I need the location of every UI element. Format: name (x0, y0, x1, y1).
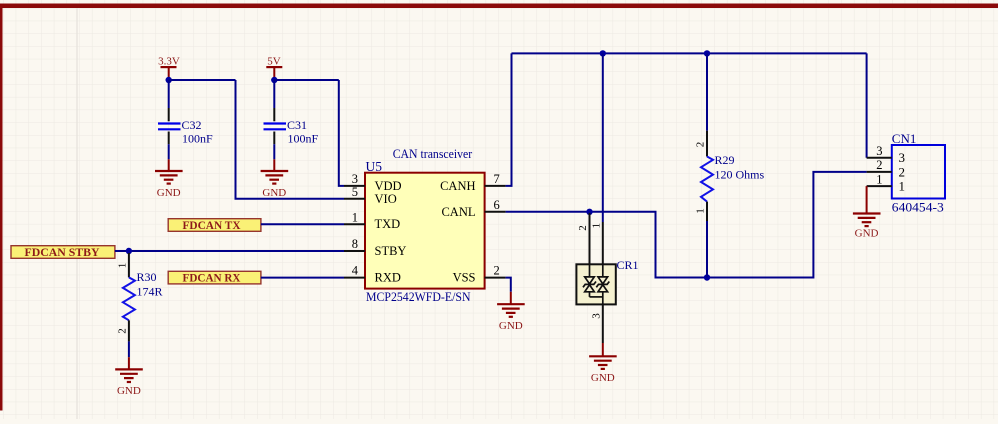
svg-text:2: 2 (494, 264, 500, 278)
wire CANL to CN1 (506, 172, 867, 278)
pin 3 (867, 157, 892, 159)
ground GND under CN1 pin 1 (853, 186, 881, 239)
wire 5V down to VDD (339, 80, 344, 186)
wire 3.3V horizontal (169, 79, 236, 81)
svg-text:2: 2 (695, 142, 707, 148)
svg-text:MCP2542WFD-E/SN: MCP2542WFD-E/SN (366, 289, 471, 304)
pin 7 CANH (440, 172, 506, 193)
pin 4 RXD (344, 264, 401, 285)
svg-text:2: 2 (876, 158, 882, 172)
svg-text:GND: GND (117, 385, 141, 397)
pin 1 TXD (344, 210, 400, 231)
wire bus down to CR1 pin 1 (602, 53, 604, 222)
ground GND under C32 (155, 159, 183, 199)
ground GND under VSS (497, 292, 525, 332)
svg-text:1: 1 (695, 208, 707, 214)
capacitor C32 (158, 108, 213, 146)
svg-text:6: 6 (494, 198, 500, 212)
svg-text:STBY: STBY (375, 244, 407, 258)
op-amp U5 CAN transceiver IC body (365, 146, 485, 304)
svg-text:7: 7 (494, 172, 500, 186)
net label FDCAN RX (168, 271, 261, 284)
wire FDCAN RX to pin 4 (261, 277, 344, 279)
svg-text:R29: R29 (715, 153, 735, 167)
svg-text:2: 2 (577, 225, 589, 231)
ground GND under C31 (261, 159, 289, 199)
ground GND under CR1 (589, 343, 617, 384)
svg-text:VSS: VSS (453, 271, 476, 285)
TVS diode CR1 (576, 213, 638, 343)
junction node 5V (271, 77, 277, 83)
wire 3.3V down to VIO (236, 80, 345, 199)
svg-text:TXD: TXD (375, 217, 401, 231)
svg-text:GND: GND (499, 320, 523, 332)
junction node CANL/R29 (704, 274, 710, 280)
svg-text:3: 3 (899, 150, 906, 165)
svg-text:GND: GND (262, 187, 286, 199)
wire R30 to ground (128, 341, 130, 357)
svg-text:FDCAN STBY: FDCAN STBY (25, 247, 101, 259)
wire bus down to CN1 pin 3 (866, 53, 868, 157)
svg-text:3: 3 (352, 172, 358, 186)
svg-text:100nF: 100nF (288, 132, 319, 146)
svg-text:100nF: 100nF (182, 132, 213, 146)
wire CANH top bus (512, 52, 867, 54)
svg-text:CAN transceiver: CAN transceiver (393, 146, 473, 161)
wire 3.3V to C32 (168, 80, 170, 108)
power port 5V (266, 56, 282, 81)
svg-text:FDCAN RX: FDCAN RX (183, 273, 242, 285)
connector CN1 (867, 131, 945, 215)
resistor R29 (695, 53, 765, 277)
ground GND under R30 (115, 357, 143, 397)
svg-text:GND: GND (591, 372, 615, 384)
junction node CANL/CR1 (586, 209, 592, 215)
pin 1 (867, 185, 892, 187)
svg-text:CN1: CN1 (892, 131, 917, 146)
svg-text:4: 4 (352, 264, 359, 278)
svg-text:1: 1 (590, 223, 602, 229)
svg-text:1: 1 (899, 179, 906, 194)
wire 5V horizontal (274, 79, 339, 81)
svg-text:8: 8 (352, 237, 358, 251)
junction node CR1 top (600, 50, 606, 56)
svg-text:1: 1 (352, 210, 358, 224)
svg-text:120 Ohms: 120 Ohms (715, 168, 765, 182)
svg-text:GND: GND (855, 228, 879, 240)
junction node R29 top (704, 50, 710, 56)
capacitor C31 (264, 108, 319, 146)
svg-text:RXD: RXD (375, 271, 401, 285)
svg-text:CR1: CR1 (617, 258, 639, 272)
svg-text:3: 3 (876, 144, 882, 158)
svg-text:C31: C31 (287, 118, 307, 132)
svg-text:1: 1 (876, 172, 882, 186)
wire C32 to ground (168, 144, 170, 159)
wire VSS to ground (506, 278, 511, 292)
svg-text:1: 1 (116, 263, 128, 269)
wire 5V to C31 (273, 80, 275, 108)
pin 8 STBY (344, 237, 406, 258)
svg-text:3.3V: 3.3V (158, 56, 180, 68)
left TVS diode element (583, 264, 596, 297)
svg-text:5V: 5V (267, 56, 281, 68)
svg-text:FDCAN TX: FDCAN TX (183, 220, 242, 232)
junction node 3.3V (166, 77, 172, 83)
net label FDCAN TX (168, 219, 261, 232)
pin 3 VDD (344, 172, 402, 193)
wire C31 to ground (273, 144, 275, 159)
svg-text:174R: 174R (137, 285, 163, 299)
pin 5 VIO (344, 185, 397, 206)
svg-text:640454-3: 640454-3 (892, 201, 944, 215)
major grid line (76, 8, 78, 419)
internal joining wire (590, 296, 603, 298)
svg-text:3: 3 (590, 313, 602, 319)
wire FDCAN TX to pin 1 (261, 223, 344, 225)
svg-text:GND: GND (157, 187, 181, 199)
svg-text:R30: R30 (137, 270, 157, 284)
svg-text:VIO: VIO (375, 192, 397, 206)
svg-text:5: 5 (352, 185, 358, 199)
wire CANH up to bus (506, 53, 512, 186)
svg-text:VDD: VDD (375, 179, 402, 193)
right TVS diode element (596, 264, 609, 304)
wire FDCAN STBY to pin 8 (115, 250, 344, 252)
power port 3.3V (158, 56, 180, 81)
svg-text:CANH: CANH (440, 179, 475, 193)
svg-text:C32: C32 (182, 118, 202, 132)
svg-text:2: 2 (116, 328, 128, 334)
junction node STBY/R30 (126, 248, 132, 254)
pin 6 CANL (441, 198, 505, 219)
pin 2 VSS (453, 264, 506, 285)
pin 3 stub (602, 304, 604, 343)
svg-text:CANL: CANL (441, 205, 475, 219)
pin 2 (867, 171, 892, 173)
net label FDCAN STBY (11, 246, 115, 259)
resistor R30 (116, 253, 162, 341)
svg-text:2: 2 (899, 164, 906, 179)
